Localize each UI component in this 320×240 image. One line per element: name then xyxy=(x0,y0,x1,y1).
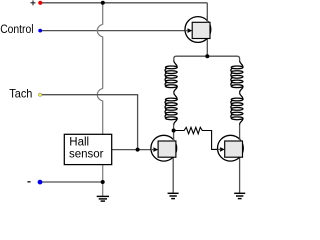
node junction top rail/bus xyxy=(101,1,105,5)
svg-text:Hall: Hall xyxy=(69,137,89,149)
inductor L4 lower right winding xyxy=(231,93,243,125)
wire Q1 gate stub inside circle xyxy=(185,30,188,32)
Hall sensor box xyxy=(64,134,111,164)
node junction minus rail / ground xyxy=(101,180,105,184)
wire Hall sensor to Q2 gate xyxy=(112,149,155,151)
wire Hall sensor bottom xyxy=(102,165,104,197)
wire Q1 drain stub inside circle xyxy=(206,16,208,22)
wire right branch middle lead xyxy=(239,92,241,94)
ground (Q2 source) xyxy=(168,193,179,198)
label - xyxy=(27,181,30,183)
wire left branch middle lead xyxy=(173,92,175,94)
wire minus rail xyxy=(41,181,103,183)
wire Q3 gate stub inside circle xyxy=(218,148,221,150)
node junction left branch / resistor xyxy=(172,129,176,133)
node minus (blue terminal) xyxy=(38,180,43,185)
transistor Q1 xyxy=(185,17,211,43)
node + (red terminal) xyxy=(38,1,42,5)
wire Tach horizontal and down xyxy=(41,95,138,150)
transistor Q2 xyxy=(151,135,177,161)
wire Q2 gate stub inside circle xyxy=(151,149,154,151)
wire Q3 source xyxy=(239,157,241,193)
wire top rail + xyxy=(41,2,208,4)
node junction phase rail xyxy=(205,54,209,58)
svg-text:Tach: Tach xyxy=(9,88,32,100)
wire left branch bottom to junction and Q2 drain xyxy=(173,125,175,142)
wire Q1 drain xyxy=(206,3,208,23)
wire Control to Q1 gate xyxy=(41,30,189,32)
resistor R1 xyxy=(174,127,221,149)
svg-text:sensor: sensor xyxy=(69,148,104,160)
ground (Q3 source) xyxy=(234,193,245,198)
node junction Tach / Q2 gate xyxy=(136,148,140,152)
wire Q3 drain stub inside circle xyxy=(239,139,241,142)
svg-text:Control: Control xyxy=(0,24,33,37)
wire right branch bottom and Q3 drain xyxy=(239,125,241,142)
inductor L1 upper left winding xyxy=(165,61,177,93)
ground (supply minus) xyxy=(97,196,109,201)
label + xyxy=(31,0,36,5)
wire Q1 source to junction xyxy=(206,39,208,57)
wire Q2 source xyxy=(172,157,174,193)
inductor L2 lower left winding xyxy=(165,93,177,125)
wire phase rail xyxy=(174,56,240,61)
wire supply bus upper xyxy=(97,3,102,135)
node Tach (yellow terminal) xyxy=(39,93,42,96)
inductor L3 upper right winding xyxy=(231,61,243,93)
node Control (blue terminal) xyxy=(38,29,42,33)
wire Q2 drain stub inside circle xyxy=(173,139,175,142)
transistor Q3 xyxy=(218,135,244,161)
